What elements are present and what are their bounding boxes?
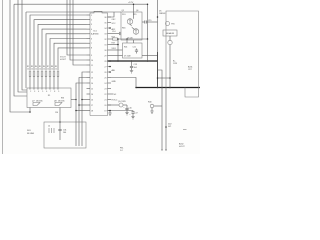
- wire pin26 long run: [111, 55, 158, 57]
- wire degauss down: [169, 36, 171, 40]
- wire fan resistor-leg R5 to U1 pin 5: [46, 34, 87, 70]
- svg-text:13: 13: [91, 77, 93, 79]
- svg-text:LA7680: LA7680: [92, 33, 100, 36]
- svg-text:10: 10: [91, 60, 93, 62]
- svg-text:104: 104: [63, 132, 66, 134]
- svg-text:6: 6: [46, 91, 47, 93]
- svg-text:28: 28: [104, 61, 106, 63]
- wire Q-pack to driver box: [133, 40, 135, 43]
- connector S01 box: [44, 122, 86, 148]
- wire X1 bottom feed to S01 box: [59, 108, 61, 123]
- ground pin34 decoupling: [108, 110, 111, 116]
- svg-text:4: 4: [91, 29, 92, 31]
- wire rail x147 lower: [147, 39, 149, 61]
- svg-text:C30: C30: [55, 112, 58, 114]
- svg-text:1N4148: 1N4148: [159, 13, 165, 15]
- svg-text:7: 7: [91, 43, 92, 45]
- svg-text:R24: R24: [124, 47, 127, 49]
- svg-text:2SC945: 2SC945: [58, 100, 65, 102]
- lamp LP1: [166, 22, 175, 26]
- svg-text:26: 26: [104, 72, 106, 74]
- node pin31 label: [112, 81, 117, 83]
- resistor R40 fusible: [148, 102, 162, 114]
- wires resistor legs down to X1 box: [30, 77, 58, 89]
- node pin24 label: [111, 39, 127, 50]
- block Q6 driver box: [123, 43, 143, 58]
- wire top bus drop to Q-pack: [133, 3, 135, 12]
- svg-text:R3: R3: [31, 66, 33, 68]
- wire fan resistor-leg R7 to U1 pin 7: [54, 43, 87, 70]
- svg-text:TH1: TH1: [171, 24, 175, 26]
- wire fan resistor-leg R3 to U1 pin 3: [38, 24, 87, 70]
- svg-text:V.OUT: V.OUT: [60, 57, 66, 59]
- block DY label box: [163, 30, 177, 36]
- diode ZD2 label: [168, 124, 172, 129]
- wire pin23 junction leg: [111, 38, 119, 61]
- coil L1: [168, 40, 172, 87]
- svg-text:16: 16: [91, 99, 93, 101]
- svg-text:1k: 1k: [39, 68, 41, 70]
- svg-text:23: 23: [104, 88, 106, 90]
- connector S01 pins: [48, 126, 54, 134]
- svg-text:7: 7: [50, 91, 51, 93]
- svg-text:1k: 1k: [27, 68, 29, 70]
- wire U1 pin12 down-leg: [81, 72, 86, 146]
- node pin27 stub: [109, 60, 111, 67]
- transistor Q7 in X1: [32, 100, 43, 105]
- wire bold mid bus: [108, 60, 158, 62]
- svg-text:9: 9: [91, 55, 92, 57]
- transistor Q9 on pin35: [108, 101, 128, 107]
- wire U1 pin14 down-leg: [75, 83, 86, 146]
- wire bold lower bus: [135, 87, 200, 89]
- node FIG label: [120, 148, 124, 153]
- svg-text:2: 2: [91, 20, 92, 22]
- capacitor C14 to Q-pack: [111, 31, 121, 35]
- wire fan W4: [22, 0, 27, 90]
- wire rail x162: [158, 70, 164, 150]
- wire +12V top bus: [14, 3, 148, 5]
- svg-text:C14: C14: [112, 31, 115, 33]
- transistor Q8 in X1: [54, 100, 65, 105]
- svg-text:3: 3: [34, 91, 35, 93]
- svg-text:24: 24: [104, 83, 106, 85]
- svg-text:2: 2: [30, 91, 31, 93]
- U1 bottom-left pins 16,17,18 stubs: [76, 100, 90, 111]
- svg-text:5: 5: [91, 34, 92, 36]
- wire mid bus A to U1 pin 9: [67, 0, 87, 55]
- svg-text:ZD2: ZD2: [168, 124, 172, 126]
- wire fan resistor-leg R4 to U1 pin 4: [42, 29, 87, 70]
- svg-text:22: 22: [104, 94, 106, 96]
- wire rail x157 from top: [157, 0, 159, 88]
- svg-text:R7: R7: [47, 66, 49, 68]
- svg-text:Q9 C1815: Q9 C1815: [118, 101, 126, 103]
- svg-text:FIG.: FIG.: [120, 148, 124, 150]
- wire pin19 to Q-pack base: [108, 12, 117, 21]
- svg-text:R17: R17: [112, 37, 115, 39]
- wire fan W2: [10, 0, 30, 112]
- node B201 label: [188, 67, 193, 72]
- node B+ label: [173, 61, 178, 66]
- svg-text:9: 9: [58, 91, 59, 93]
- svg-text:8: 8: [91, 48, 92, 50]
- block X1 (bottom-left module) with top pins: [27, 88, 71, 108]
- svg-text:18: 18: [91, 110, 93, 112]
- sheet left border: [2, 0, 4, 154]
- svg-text:15: 15: [91, 88, 93, 90]
- svg-text:R40: R40: [148, 102, 151, 104]
- wire fan resistor-leg R2 to U1 pin 2: [34, 20, 87, 70]
- block T1 flyback outline: [166, 11, 199, 97]
- svg-text:ABL: ABL: [112, 69, 116, 72]
- U1 left pin stubs with pin numbers: [87, 15, 94, 113]
- svg-text:34: 34: [104, 28, 106, 30]
- svg-text:1k: 1k: [31, 68, 33, 70]
- svg-text:25: 25: [104, 77, 106, 79]
- wire pin33 stub: [111, 94, 117, 96]
- node B202 label: [179, 144, 185, 149]
- svg-text:C16: C16: [129, 108, 132, 110]
- wire rail x166 lower: [165, 88, 167, 151]
- svg-text:5: 5: [42, 91, 43, 93]
- capacitor C17 electrolytic: [108, 111, 138, 119]
- wire mid bus B to U1 pin 10: [70, 0, 87, 60]
- svg-text:VCC: VCC: [112, 23, 117, 25]
- svg-text:H.OUT: H.OUT: [179, 146, 185, 148]
- node S01 label: [27, 130, 35, 135]
- wire fan W3: [18, 0, 27, 92]
- wire fan resistor-leg R6 to U1 pin 6: [50, 39, 87, 71]
- svg-text:FB GND: FB GND: [27, 133, 35, 135]
- node +12V label: [128, 2, 134, 4]
- svg-text:4: 4: [38, 91, 39, 93]
- svg-text:1k: 1k: [35, 68, 37, 70]
- svg-text:D7 4148: D7 4148: [124, 56, 130, 58]
- node chassis tick: [183, 129, 187, 131]
- svg-text:31: 31: [104, 44, 106, 46]
- svg-text:Q5 Q6: Q5 Q6: [127, 38, 133, 40]
- svg-text:B201: B201: [188, 67, 192, 69]
- svg-text:C15: C15: [148, 20, 151, 22]
- svg-text:36: 36: [104, 17, 106, 19]
- svg-text:GND: GND: [112, 81, 117, 83]
- svg-text:33: 33: [104, 33, 106, 35]
- svg-text:29: 29: [104, 55, 106, 57]
- svg-text:8: 8: [54, 91, 55, 93]
- svg-text:Q7: Q7: [32, 100, 35, 102]
- svg-text:R2: R2: [27, 66, 29, 68]
- svg-text:1-2: 1-2: [120, 150, 123, 152]
- svg-text:B202: B202: [179, 144, 183, 146]
- wire X1 right pin to pin16 leg: [61, 98, 77, 101]
- svg-text:Q8: Q8: [54, 100, 57, 102]
- svg-text:J2: J2: [48, 126, 50, 128]
- svg-text:19: 19: [104, 110, 106, 112]
- svg-text:ZD1: ZD1: [122, 14, 126, 16]
- svg-text:D5: D5: [159, 11, 161, 13]
- svg-text:21: 21: [104, 99, 106, 101]
- node pin20 label: [112, 23, 117, 25]
- wire top bus end drop: [147, 3, 149, 39]
- U1 right pin stubs with pin numbers 19-36: [104, 17, 111, 113]
- capacitor C15: [142, 20, 158, 24]
- wire fan resistor-leg R1 to U1 pin 1: [30, 15, 87, 70]
- svg-text:C21: C21: [133, 47, 136, 49]
- svg-text:R33: R33: [61, 98, 64, 100]
- node labels mid bus: [60, 57, 67, 62]
- svg-text:14: 14: [91, 83, 93, 85]
- svg-text:R9: R9: [55, 66, 57, 68]
- svg-text:12: 12: [91, 72, 93, 74]
- svg-text:C17: C17: [135, 113, 138, 115]
- svg-text:104: 104: [134, 67, 137, 69]
- svg-text:R4: R4: [35, 66, 37, 68]
- wire rail x170 tap: [157, 77, 171, 79]
- svg-text:35: 35: [104, 22, 106, 24]
- node C30 label: [55, 112, 58, 114]
- svg-text:1k: 1k: [51, 68, 53, 70]
- svg-text:11: 11: [91, 65, 93, 67]
- op-amp U1 (jungle IC LA7680, body with top notch): [90, 11, 108, 115]
- svg-text:Q6: Q6: [136, 10, 138, 12]
- svg-text:6: 6: [91, 38, 92, 40]
- svg-text:R5: R5: [39, 66, 41, 68]
- svg-text:17: 17: [91, 105, 93, 107]
- node D5 label: [159, 11, 165, 16]
- capacitor C13 to ground: [130, 61, 137, 73]
- svg-text:9V1: 9V1: [168, 126, 171, 128]
- node pin29 stub: [109, 69, 115, 73]
- capacitor C31 in S01: [58, 122, 66, 140]
- svg-text:R6: R6: [43, 66, 45, 68]
- resistor R17: [111, 37, 148, 41]
- wire U1 pin13 down-leg: [78, 78, 86, 147]
- svg-text:3: 3: [91, 24, 92, 26]
- svg-text:32: 32: [104, 39, 106, 41]
- node pin21 label: [109, 27, 116, 31]
- capacitor C16 electrolytic: [123, 105, 131, 115]
- svg-text:R8: R8: [51, 66, 53, 68]
- svg-text:R16: R16: [122, 28, 125, 30]
- wire fan resistor-leg R8 to U1 pin 8: [58, 48, 87, 70]
- svg-text:2SC945: 2SC945: [36, 100, 43, 102]
- svg-text:DEGAUSS: DEGAUSS: [166, 32, 175, 35]
- svg-text:20: 20: [104, 105, 106, 107]
- wire base-drive run to Q-pack: [26, 12, 121, 88]
- node pin34 label: [112, 99, 119, 101]
- svg-text:R19: R19: [112, 42, 115, 44]
- svg-text:16: 16: [91, 94, 93, 96]
- svg-text:H.OUT: H.OUT: [60, 59, 67, 61]
- transistor pack Q5/Q6 with ZD1: [121, 10, 142, 40]
- svg-text:30: 30: [104, 50, 106, 52]
- svg-text:1k: 1k: [43, 68, 45, 70]
- svg-text:1k: 1k: [55, 68, 57, 70]
- svg-text:1: 1: [91, 15, 92, 17]
- svg-text:1k: 1k: [47, 68, 49, 70]
- svg-text:27: 27: [104, 66, 106, 68]
- wire pin30 to corner: [111, 78, 136, 88]
- wire mid bus C to U1 pin 11: [73, 0, 87, 65]
- resistors R21-R28 vertical array with value labels: [27, 66, 59, 77]
- wire X1 output to junction: [29, 108, 31, 113]
- wire fan W1 (top-left corner run): [14, 4, 27, 96]
- svg-text:Q5: Q5: [122, 10, 124, 12]
